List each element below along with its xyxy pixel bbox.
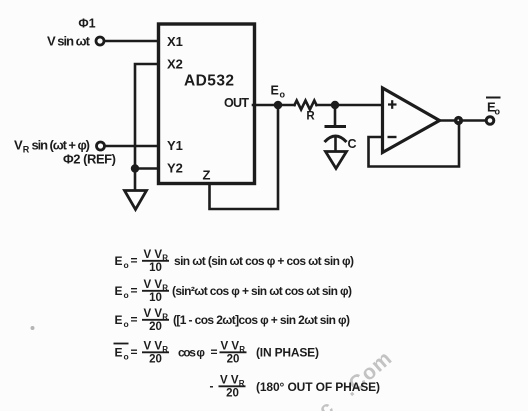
svg-text:C: C bbox=[348, 137, 357, 151]
pin label Z bbox=[203, 168, 211, 183]
svg-text:E: E bbox=[115, 284, 123, 298]
svg-text:E: E bbox=[115, 346, 123, 360]
svg-text:=: = bbox=[131, 345, 138, 359]
equation 4 bbox=[114, 341, 320, 366]
svg-text:20: 20 bbox=[227, 353, 240, 365]
svg-text:R: R bbox=[23, 145, 30, 155]
node phi1 label bbox=[78, 17, 95, 31]
capacitor C bbox=[325, 105, 347, 151]
pin label OUT bbox=[224, 96, 249, 110]
wire Y2 bbox=[135, 167, 159, 170]
svg-text:V: V bbox=[14, 138, 23, 153]
pin label Y2 bbox=[167, 161, 183, 176]
watermark bbox=[314, 346, 397, 411]
svg-text:sin ωt (sin ωt cos φ + cos ωt: sin ωt (sin ωt cos φ + cos ωt sin φ) bbox=[174, 254, 354, 268]
node Eo junction dot bbox=[274, 101, 283, 110]
svg-text:V sin ωt: V sin ωt bbox=[47, 34, 91, 49]
svg-text:E: E bbox=[115, 313, 123, 327]
value label AD532 bbox=[184, 73, 234, 90]
svg-text:o: o bbox=[495, 107, 501, 117]
wire op-amp output bbox=[440, 119, 487, 122]
svg-text:=: = bbox=[131, 313, 138, 327]
svg-text:Y1: Y1 bbox=[167, 138, 183, 153]
pin label X1 bbox=[167, 34, 183, 49]
pin label Y1 bbox=[167, 138, 183, 153]
junction dot C node bbox=[331, 101, 339, 109]
svg-text:=: = bbox=[131, 284, 138, 298]
input terminal VR bbox=[97, 142, 105, 150]
svg-text:=: = bbox=[131, 254, 138, 268]
IC U1 AD532 bbox=[159, 24, 255, 184]
speck bbox=[31, 326, 35, 330]
equation 2 bbox=[115, 279, 353, 304]
resistor R bbox=[295, 101, 317, 110]
svg-text:(IN PHASE): (IN PHASE) bbox=[256, 346, 319, 360]
svg-text:(180° OUT OF PHASE): (180° OUT OF PHASE) bbox=[256, 380, 380, 394]
ground GND2 bbox=[326, 152, 347, 169]
input terminal V sin wt bbox=[96, 37, 104, 45]
svg-text:Z: Z bbox=[203, 168, 211, 183]
label Eo bbox=[271, 84, 286, 100]
svg-text:R: R bbox=[306, 111, 315, 123]
wire resistor to op-amp + bbox=[317, 104, 383, 107]
wire Eo to Z pin bbox=[210, 105, 279, 209]
equation 1 bbox=[115, 249, 355, 274]
svg-text:X2: X2 bbox=[167, 57, 183, 72]
svg-text:V V: V V bbox=[144, 341, 163, 353]
svg-text:V V: V V bbox=[144, 308, 163, 320]
op-amp U2 bbox=[383, 88, 440, 153]
svg-text:o: o bbox=[124, 352, 129, 362]
svg-text:10: 10 bbox=[149, 262, 162, 274]
svg-text:=: = bbox=[211, 345, 218, 359]
equation 3 bbox=[115, 308, 351, 333]
svg-text:E: E bbox=[271, 84, 279, 98]
output terminal Eo-bar bbox=[486, 117, 494, 125]
svg-text:AD532: AD532 bbox=[184, 73, 234, 90]
junction dot X2/Y2 ground node bbox=[131, 164, 139, 172]
svg-text:o: o bbox=[124, 319, 129, 329]
wire Y1 input bbox=[105, 145, 159, 148]
label phi2 (REF) bbox=[63, 152, 116, 167]
svg-text:X1: X1 bbox=[167, 34, 183, 49]
junction dot output bbox=[454, 116, 463, 125]
label VR sin (wt + phi) bbox=[14, 138, 90, 155]
svg-text:o: o bbox=[124, 290, 129, 300]
label R bbox=[306, 111, 315, 123]
svg-text:20: 20 bbox=[149, 353, 162, 365]
svg-text:-: - bbox=[210, 379, 214, 393]
svg-text:V V: V V bbox=[144, 249, 163, 261]
svg-text:(sin²ωt cos φ + sin ωt cos ωt: (sin²ωt cos φ + sin ωt cos ωt sin φ) bbox=[172, 284, 352, 298]
svg-text:OUT: OUT bbox=[224, 96, 249, 110]
svg-text:10: 10 bbox=[149, 292, 162, 304]
svg-text:20: 20 bbox=[226, 387, 239, 399]
label Eo-bar bbox=[486, 98, 501, 117]
svg-text:Y2: Y2 bbox=[167, 161, 183, 176]
svg-text:sin (ωt + φ): sin (ωt + φ) bbox=[32, 138, 91, 153]
feedback wire bbox=[369, 122, 460, 167]
svg-text:V V: V V bbox=[221, 341, 240, 353]
svg-text:20: 20 bbox=[149, 321, 162, 333]
wire OUT to resistor bbox=[253, 104, 295, 107]
label C bbox=[348, 137, 357, 151]
svg-text:([1 - cos 2ωt]cos φ + sin 2ωt: ([1 - cos 2ωt]cos φ + sin 2ωt sin φ) bbox=[173, 313, 350, 327]
svg-text:V V: V V bbox=[220, 375, 239, 387]
svg-text:Φ2 (REF): Φ2 (REF) bbox=[63, 152, 116, 167]
svg-text:V V: V V bbox=[144, 279, 163, 291]
label V sin wt bbox=[47, 34, 91, 49]
ground GND1 bbox=[125, 191, 147, 210]
svg-text:Φ1: Φ1 bbox=[78, 17, 95, 31]
equation 5 bbox=[210, 375, 381, 400]
wire X1 input bbox=[105, 40, 159, 43]
svg-text:cos φ: cos φ bbox=[178, 346, 205, 360]
svg-text:o: o bbox=[124, 260, 129, 270]
wire X2 to ground bbox=[135, 64, 159, 190]
pin label X2 bbox=[167, 57, 183, 72]
svg-text:E: E bbox=[115, 254, 123, 268]
svg-text:o: o bbox=[280, 90, 286, 100]
